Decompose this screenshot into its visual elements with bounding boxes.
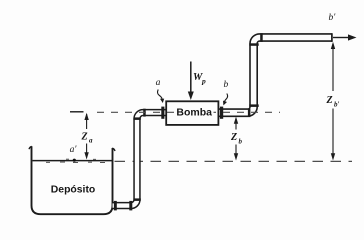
svg-text:a: a: [89, 137, 93, 145]
tank right wall top flare: [112, 148, 115, 151]
flange at pump outlet: [220, 107, 223, 119]
discharge pipe end cap at b': [331, 33, 333, 42]
svg-text:Bomba: Bomba: [176, 107, 212, 119]
pump centerline dashed: [97, 111, 280, 113]
svg-text:Z: Z: [81, 132, 88, 143]
svg-text:p: p: [201, 77, 206, 86]
Zb' dimension line lower segment: [332, 109, 334, 155]
leader from a to pump inlet: [158, 90, 163, 101]
svg-text:b′: b′: [334, 101, 340, 109]
wire discharge pipe bore: [219, 38, 332, 113]
Zb dimension line upper segment: [235, 119, 237, 130]
tank Depósito walls: [32, 146, 113, 214]
joint tick right of suction upper elbow: [143, 109, 146, 117]
Wp arrow into pump: [190, 62, 192, 94]
pump Bomba label: [175, 106, 213, 118]
flange at pump inlet: [161, 107, 164, 119]
svg-text:a: a: [156, 78, 161, 88]
svg-text:b: b: [239, 138, 243, 146]
Zb dimension line lower segment: [235, 145, 237, 155]
water surface ripple marks: [46, 159, 105, 162]
flow arrow out of pipe at b': [333, 37, 349, 39]
joint tick above suction lower elbow: [133, 198, 140, 201]
Za dimension reference tick: [70, 111, 84, 113]
Za dimension line lower segment: [86, 144, 88, 154]
joint tick left of discharge lower elbow: [248, 108, 251, 117]
tank left wall top flare: [29, 146, 32, 149]
joint tick below suction upper elbow: [133, 117, 140, 120]
water surface line: [33, 160, 113, 162]
flange at tank outlet: [114, 201, 117, 211]
datum dashed line through a': [115, 160, 353, 162]
node a' dot: [73, 159, 76, 162]
svg-text:a′: a′: [70, 145, 78, 155]
Za dimension line upper segment: [86, 114, 88, 129]
wire discharge pipe casing: [219, 38, 332, 113]
svg-text:b: b: [224, 80, 229, 90]
svg-text:Z: Z: [326, 95, 333, 106]
svg-text:b′: b′: [329, 13, 337, 23]
wire suction pipe bore: [113, 113, 167, 206]
joint tick right of discharge upper elbow: [260, 33, 263, 42]
Zb' dimension line upper segment: [332, 44, 334, 91]
wire suction pipe casing: [113, 113, 167, 206]
pump Bomba box: [166, 101, 218, 125]
svg-text:Z: Z: [230, 132, 237, 143]
svg-text:Depósito: Depósito: [51, 184, 95, 195]
flange before suction lower elbow: [129, 201, 132, 211]
leader from b to pump outlet: [224, 94, 227, 103]
joint tick below discharge upper elbow: [249, 43, 258, 46]
joint tick above discharge lower elbow: [249, 104, 258, 107]
